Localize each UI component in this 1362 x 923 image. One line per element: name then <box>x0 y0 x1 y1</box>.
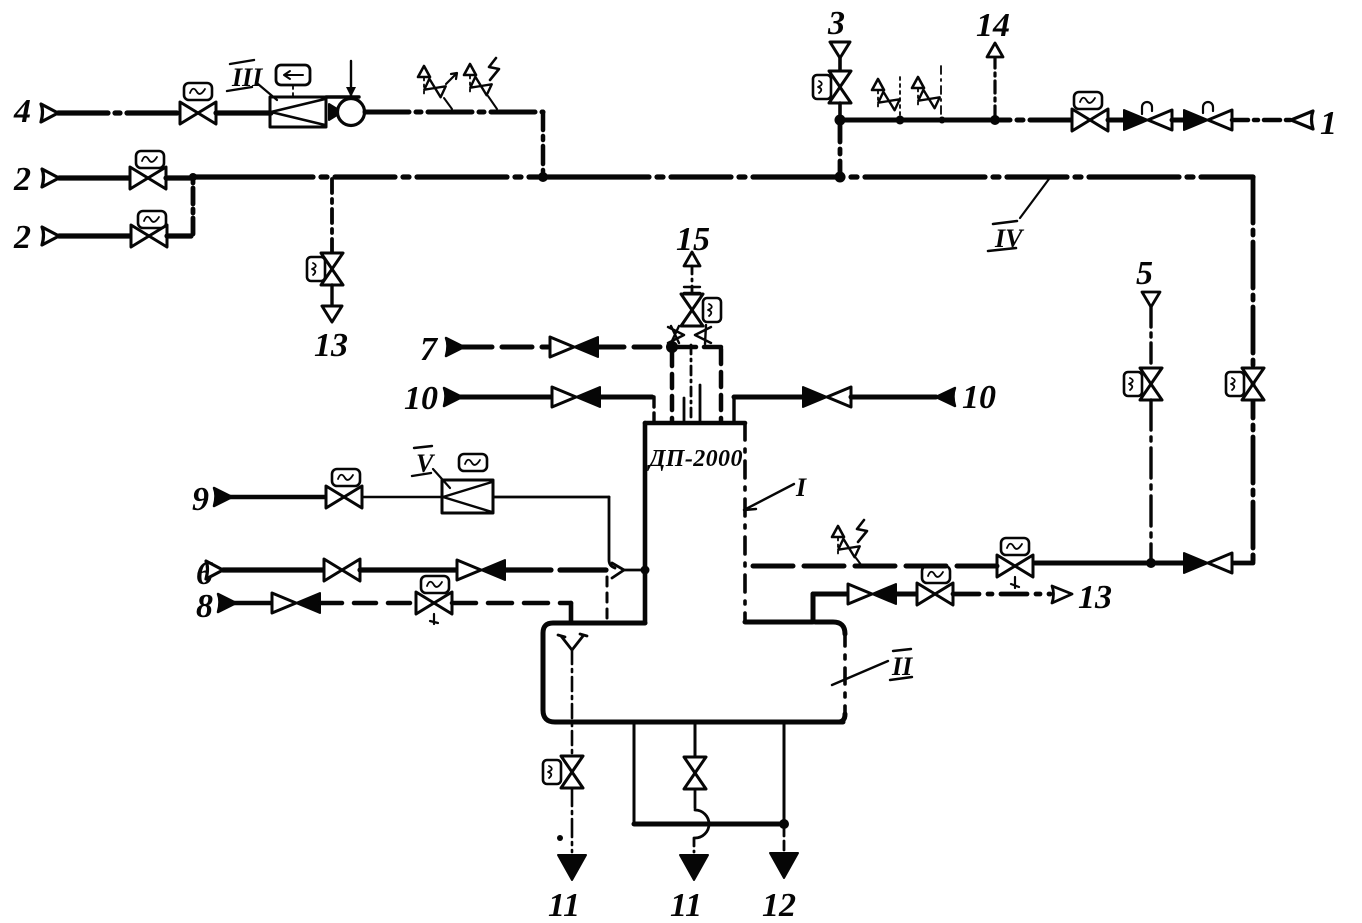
junction arrow into vessel line 6 <box>612 563 624 578</box>
funnel stem through bunker (dash-dot) <box>571 650 574 755</box>
wire line 13 between check and valve <box>896 592 917 597</box>
svg-text:11: 11 <box>670 887 702 923</box>
tag of valve line 5 <box>1124 372 1142 396</box>
dashed drop below line 6 to bunker <box>606 577 609 622</box>
svg-text:12: 12 <box>762 887 796 923</box>
dashed stem from tag to apparatus III <box>292 86 294 96</box>
tag of valve line 3 <box>813 75 831 99</box>
tag of valve line 13 right <box>922 566 950 583</box>
wire line 10 left to riser <box>600 395 652 400</box>
junction dot header at instrument <box>896 116 905 125</box>
instrument cluster A above line 4 <box>418 66 446 97</box>
wire branch 13 below valve <box>330 285 333 305</box>
instrument cluster B above line 4 <box>464 64 492 95</box>
hook above check 1a <box>1142 102 1152 114</box>
filled arrow between III and pump <box>329 104 342 120</box>
apparatus III internal diagonals <box>271 99 325 125</box>
valve on line 13 right <box>917 583 953 605</box>
svg-text:14: 14 <box>976 7 1010 44</box>
svg-text:11: 11 <box>548 887 580 923</box>
end arrow line 10 right (filled, pointing left) <box>936 388 955 406</box>
valve on line 6 <box>324 559 360 581</box>
vessel I right wall (dashed) <box>743 423 747 622</box>
header wire y120 <box>840 118 1072 123</box>
instrument zigzag flag B <box>489 58 499 80</box>
vent triangle branch 13 <box>322 306 342 322</box>
hook above check 1b <box>1203 102 1213 113</box>
tag of valve line 2 upper <box>136 151 164 168</box>
instrument D stem to header <box>940 66 942 118</box>
riser joining two lines 2 (dash-dot) <box>191 178 196 234</box>
main line II horizontal (dash-dot across page) <box>193 174 1253 179</box>
end arrow line 13 right (open, pointing right) <box>1052 586 1072 603</box>
label V bars <box>412 446 432 476</box>
junction dot line5/main <box>1146 558 1156 568</box>
valve on line 9 <box>326 486 362 508</box>
outfall arrow 11 left (filled down) <box>558 855 586 880</box>
svg-text:10: 10 <box>962 379 996 416</box>
junction dot line II / riser <box>835 172 846 183</box>
pump stem arrowhead <box>346 87 356 97</box>
thin wire line 9 to apparatus V <box>362 496 443 498</box>
stem below right process valve <box>1011 577 1019 588</box>
label IV bars <box>988 221 1017 251</box>
source arrow line 2 upper <box>42 169 59 187</box>
wire line 6 to vessel <box>505 567 608 572</box>
wire line 1 between checks <box>1172 118 1184 123</box>
check valve line 13 right <box>848 584 896 604</box>
riser line 10 left into vessel top <box>652 397 655 422</box>
valve on line 15 <box>681 294 703 326</box>
leader line V <box>433 469 450 488</box>
funnel Y inside bunker <box>558 634 587 650</box>
line 5 riser upper (dash-dot) <box>1149 307 1152 368</box>
check valve line 10 right <box>803 387 851 407</box>
wire line 6 between valve and check <box>360 567 457 572</box>
short solid pipe stubs at vessel top <box>684 385 700 423</box>
U-pipe bottom run <box>634 822 784 827</box>
svg-text:13: 13 <box>1078 579 1112 616</box>
dashed drop from line 7 junction into vessel <box>670 352 675 422</box>
source arrow line 7 <box>446 338 464 356</box>
wire from pump to corner (dash-dot) <box>365 110 543 115</box>
valve on right process line <box>997 555 1033 577</box>
svg-text:5: 5 <box>1136 255 1153 292</box>
center drain stem from bunker <box>694 722 697 756</box>
line 13 right riser from bunker <box>811 594 816 622</box>
wire line 8 dashed to valve <box>320 601 416 606</box>
apparatus V box <box>442 480 493 513</box>
svg-text:1: 1 <box>1320 105 1337 142</box>
bunker II right wall (dashed) <box>843 630 847 718</box>
wire line 7 after check (dashed) <box>598 345 664 350</box>
svg-text:4: 4 <box>13 93 31 130</box>
instrument arrow flag A <box>446 73 457 84</box>
source arrow line 4 <box>41 104 58 122</box>
valve on line 2 lower <box>131 225 167 247</box>
U-pipe below bunker left leg <box>633 722 636 824</box>
pump circle <box>338 99 365 126</box>
wire line 10 left <box>460 395 550 400</box>
svg-text:ДП-2000: ДП-2000 <box>647 446 743 472</box>
flange marks line 15 <box>684 287 700 293</box>
tag of valve line 4 <box>184 83 212 100</box>
wire line 4 left segment (dash-dot) <box>58 110 182 115</box>
tag of right process valve <box>1001 538 1029 555</box>
check valve 1a <box>1124 110 1172 130</box>
svg-text:3: 3 <box>827 5 845 42</box>
valve on line 4 <box>180 102 216 124</box>
valve on branch 13 left <box>321 253 343 285</box>
bunker II top right edge <box>745 622 845 634</box>
left drain lower stem (dash-dot) <box>571 788 574 852</box>
tag box above apparatus III <box>276 65 310 85</box>
wire line 4 to apparatus III <box>216 110 271 115</box>
source arrow line 6 <box>206 561 223 579</box>
corner wire down to line 2 (dash-dot) <box>541 112 546 175</box>
wire line 10 right <box>734 395 802 400</box>
svg-text:9: 9 <box>192 481 209 518</box>
svg-text:10: 10 <box>404 380 438 417</box>
svg-text:2: 2 <box>13 219 31 256</box>
instrument C stem to header <box>899 77 901 118</box>
junction dot line 7 <box>666 341 678 353</box>
wire line 3 to header <box>838 103 842 120</box>
bunker II outline left part <box>543 623 843 722</box>
valve on line 8 <box>416 592 452 614</box>
end arrow line 1 (open, pointing left) <box>1291 111 1313 129</box>
check valve line 6 <box>457 560 505 580</box>
instrument cluster D on header <box>912 77 940 108</box>
wire line 2 lower to valve <box>59 233 132 238</box>
tag of valve line 9 <box>332 469 360 486</box>
stem below valve line 8 <box>430 614 438 624</box>
crossing arc jump center drain <box>695 810 709 838</box>
junction dot line 2 / line 4 <box>538 172 548 182</box>
source arrow line 9 <box>214 488 232 506</box>
wire line 1 tail (dash-dot) <box>1232 118 1290 123</box>
valve on line 5 <box>1140 368 1162 400</box>
svg-text:2: 2 <box>13 161 31 198</box>
line II right corner down (dash-dot vertical) <box>1251 177 1256 561</box>
check valve line 8 <box>272 593 320 613</box>
tag of valve line 15 <box>703 298 721 322</box>
tag of branch 13 valve <box>307 257 325 281</box>
wire line 8 dashed to corner <box>452 601 571 606</box>
junction dot header/line14 <box>990 115 1000 125</box>
center drain dashes to outfall <box>693 838 696 852</box>
outfall arrow 11 center (filled down) <box>680 855 708 880</box>
check valve on line II bottom <box>1184 553 1232 573</box>
vessel I top edge <box>645 421 745 426</box>
vent triangle line 14 <box>987 43 1003 57</box>
wire line 7 (dashed) <box>462 345 548 350</box>
drain valve left (vertical bowtie) <box>561 756 583 788</box>
vent triangle line 5 <box>1142 292 1160 307</box>
wire line 9 to valve <box>230 495 326 500</box>
instrument connectors to line 4 <box>444 96 497 109</box>
right drain leg from bunker <box>783 722 786 824</box>
check valve 1b <box>1184 110 1232 130</box>
source arrow line 2 lower <box>42 227 59 245</box>
source arrow line 8 <box>218 594 236 612</box>
apparatus V internal diagonals <box>443 482 492 512</box>
drain valve center (vertical bowtie) <box>684 757 706 789</box>
instrument cluster C on header <box>872 79 900 110</box>
junction dot line 6 at vessel <box>641 566 650 575</box>
right process line dashes to vessel <box>745 564 997 569</box>
source arrow line 10 left <box>444 388 462 406</box>
tag box above apparatus V <box>459 454 487 471</box>
corner line 8 down to bunker <box>569 603 574 622</box>
pump stem line <box>350 61 352 98</box>
riser from header down to line II <box>838 120 843 176</box>
thin wire line 6 into vessel wall <box>624 569 645 572</box>
wire line 2 upper after valve <box>166 175 193 180</box>
instrument zigzag flag E <box>857 520 867 542</box>
wire from check to junction 5 <box>1035 561 1184 566</box>
tag of valve line 1 <box>1074 92 1102 109</box>
label I leader <box>744 484 794 510</box>
line 15 stem below triangle <box>691 266 694 294</box>
tag of left drain valve <box>543 760 561 784</box>
vent triangle line 15 <box>684 252 700 266</box>
wire line 8 to check <box>234 601 272 606</box>
riser line 10 right from vessel top <box>732 399 735 422</box>
junction dot header second instrument <box>939 117 946 124</box>
corner wire from V down <box>609 497 615 568</box>
svg-text:I: I <box>795 473 807 502</box>
junction dot right drain <box>779 819 789 829</box>
left drain dot <box>557 835 563 841</box>
wire line 2 upper to valve <box>59 175 131 180</box>
check valve line 10 left <box>552 387 600 407</box>
vent triangle line 3 <box>830 42 850 58</box>
tag of line II drop valve <box>1226 372 1244 396</box>
wire line 6 to first valve <box>223 567 325 572</box>
instrument cluster E above right process line <box>832 526 860 557</box>
corner line II bottom turn left <box>1232 555 1253 563</box>
wire line 7 to right corner (dashed) <box>678 345 721 350</box>
wire line 1 between valve and first check <box>1108 118 1124 123</box>
center drain stem below valve <box>694 789 697 808</box>
line 5 riser lower (dash-dot) <box>1149 400 1152 561</box>
label III overline <box>227 60 254 91</box>
wire line 13 right start <box>813 592 848 597</box>
label II bars <box>890 649 912 680</box>
junction dot riser/line II <box>189 173 197 181</box>
line 15 center drop (dash-dot) into vessel <box>690 345 693 422</box>
svg-text:8: 8 <box>196 588 213 625</box>
junction dot header/line3 <box>835 115 846 126</box>
instrument E connector to line <box>856 558 862 566</box>
wire line 10 right tail <box>851 395 936 400</box>
bunker II bottom right corner <box>838 714 845 722</box>
wire line 2 lower after valve <box>167 233 191 238</box>
svg-text:13: 13 <box>314 327 348 364</box>
leader line III <box>258 84 277 100</box>
check valve line 7 <box>550 337 598 357</box>
valve on line 1 <box>1072 109 1108 131</box>
outfall arrow 12 (filled down) <box>770 853 798 878</box>
vessel I left wall <box>643 423 648 623</box>
apparatus III top extension line <box>326 95 359 98</box>
closed-point arrows line 15 <box>668 326 684 343</box>
svg-text:7: 7 <box>420 331 439 368</box>
tag of valve line 8 <box>421 576 449 593</box>
label II leader <box>832 661 888 685</box>
valve on line II right drop <box>1242 368 1264 400</box>
leader line IV <box>1020 179 1049 218</box>
wire line 13 right tail <box>953 592 1050 597</box>
line 14 riser (dash-dot) <box>993 58 996 118</box>
branch to 13: vertical dash-dot from line II <box>330 179 334 252</box>
right drain stem below <box>783 824 786 850</box>
tag of valve line 2 lower <box>138 211 166 228</box>
valve on line 3 <box>829 71 851 103</box>
valve on line 2 upper <box>130 167 166 189</box>
wire line 3 upper <box>838 58 842 72</box>
wire after apparatus V <box>493 496 609 499</box>
dashed drop from line 7 right corner into vessel <box>719 349 724 422</box>
apparatus III box <box>270 97 326 127</box>
